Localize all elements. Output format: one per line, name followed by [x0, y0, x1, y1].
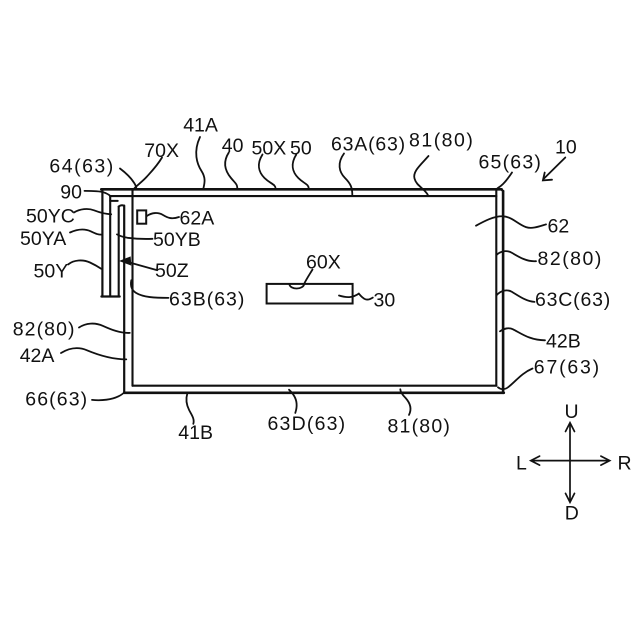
svg-text:D: D: [565, 503, 579, 525]
svg-text:10: 10: [555, 137, 577, 159]
svg-text:65(63): 65(63): [479, 152, 543, 174]
svg-text:41B: 41B: [178, 422, 213, 444]
svg-text:41A: 41A: [183, 115, 218, 137]
svg-text:R: R: [618, 453, 632, 475]
svg-text:67(63): 67(63): [534, 357, 601, 379]
svg-text:66(63): 66(63): [25, 389, 88, 411]
svg-text:50Y: 50Y: [34, 261, 69, 283]
svg-text:63D(63): 63D(63): [268, 413, 347, 435]
svg-text:50: 50: [290, 138, 312, 160]
svg-text:70X: 70X: [144, 140, 179, 162]
svg-text:90: 90: [60, 182, 82, 204]
svg-text:81(80): 81(80): [388, 415, 452, 437]
svg-text:50Z: 50Z: [155, 260, 189, 282]
svg-text:82(80): 82(80): [538, 248, 603, 270]
svg-text:40: 40: [222, 135, 244, 157]
svg-text:63B(63): 63B(63): [169, 288, 245, 310]
svg-text:60X: 60X: [306, 252, 341, 274]
svg-text:63C(63): 63C(63): [535, 289, 611, 311]
svg-text:42B: 42B: [546, 331, 581, 353]
svg-text:50YA: 50YA: [20, 228, 66, 250]
svg-text:63A(63): 63A(63): [331, 133, 406, 155]
svg-text:42A: 42A: [20, 345, 55, 367]
svg-text:50YB: 50YB: [153, 229, 201, 251]
svg-text:64(63): 64(63): [49, 156, 114, 178]
svg-text:U: U: [565, 401, 579, 423]
svg-text:62: 62: [548, 216, 570, 238]
svg-text:30: 30: [374, 290, 396, 312]
svg-text:82(80): 82(80): [13, 318, 76, 340]
svg-text:81(80): 81(80): [409, 130, 474, 152]
svg-text:62A: 62A: [180, 208, 215, 230]
svg-text:50X: 50X: [252, 138, 287, 160]
svg-text:L: L: [516, 453, 527, 475]
svg-text:50YC: 50YC: [26, 206, 75, 228]
